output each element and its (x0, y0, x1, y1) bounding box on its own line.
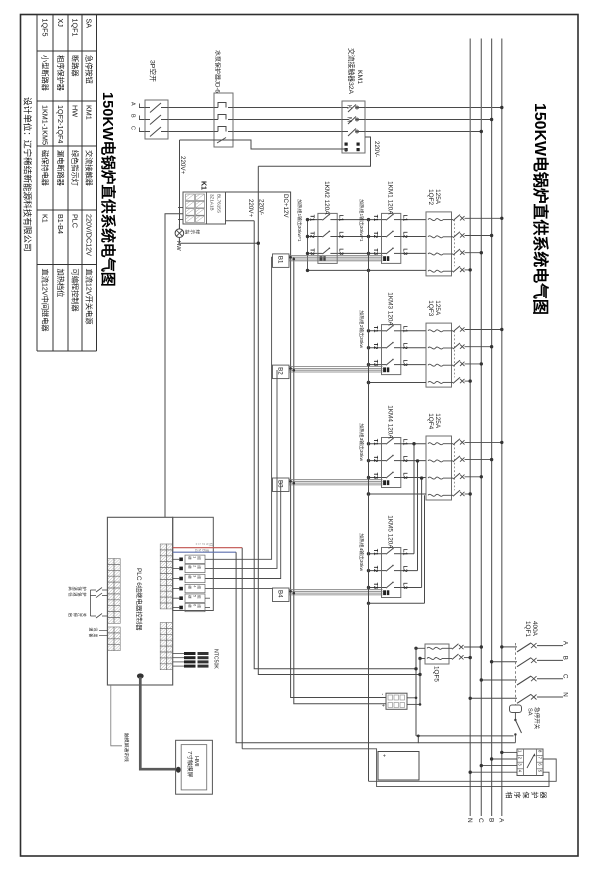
wire 220V+ rail to K1 HW (179, 140, 181, 229)
wire 220V+ rail vertical (254, 221, 416, 669)
breaker 1QF1 400A poles (502, 646, 517, 648)
svg-text:1QF2-1QF4: 1QF2-1QF4 (56, 105, 65, 143)
svg-text:通: 通 (89, 628, 94, 632)
svg-text:B: B (130, 114, 136, 118)
svg-text:M: M (345, 117, 351, 122)
wire 1QF3 pole 3 to bus (465, 363, 482, 365)
svg-text:C: C (477, 818, 484, 823)
coil wire bundle row 3 (289, 479, 383, 481)
wire 1QF3 pole 2 to bus (465, 346, 492, 348)
svg-text:B1-B4: B1-B4 (56, 214, 65, 234)
wire phase B (139, 119, 492, 121)
contactor 1KM4 pole T1 (382, 443, 387, 445)
svg-text:相: 相 (504, 792, 513, 799)
wire blue loop to SA return (236, 552, 418, 743)
svg-text:示: 示 (190, 230, 195, 235)
wire row 2 T/L lines (369, 330, 427, 332)
svg-text:N: N (561, 692, 568, 696)
svg-text:小型断路器: 小型断路器 (40, 55, 49, 91)
svg-text:1QF1: 1QF1 (524, 621, 531, 637)
svg-text:7寸触摸屏: 7寸触摸屏 (186, 751, 194, 778)
svg-text:B: B (487, 818, 494, 822)
contactor 1KM1 coil terminals (383, 256, 386, 261)
svg-text:B2: B2 (277, 367, 284, 375)
svg-text:漏电断路器: 漏电断路器 (56, 150, 65, 186)
svg-text:L3: L3 (401, 473, 407, 480)
wire coil return row 1 (308, 269, 427, 271)
junction bundle row 1 rails (289, 256, 292, 259)
contactor 1KM5 pole T1 (382, 553, 387, 555)
T-side junction dots 1KM1 (367, 218, 370, 221)
breaker 1QF3 pole 4 (428, 381, 443, 383)
wire SA return segment (418, 742, 515, 744)
PLC right terminal strip lower (160, 623, 166, 629)
svg-text:B: B (561, 656, 568, 660)
wire DC12V+ red (173, 547, 243, 549)
svg-text:直流12V开关电源: 直流12V开关电源 (85, 269, 94, 325)
breaker 1QF5 box (425, 644, 449, 664)
contactor 1KM2 pole T2 (318, 236, 323, 238)
wire B2 riser (205, 370, 277, 568)
phase sequence relay XJ 相序保护器 (517, 749, 543, 776)
wire row 4 T/L lines (369, 553, 415, 555)
contactor 1KM1 box (382, 213, 401, 263)
T-side junction dots 1KM5 (367, 552, 370, 555)
svg-text:L2: L2 (401, 343, 407, 350)
svg-text:1KM5 120A: 1KM5 120A (387, 515, 394, 549)
svg-text:断路器: 断路器 (70, 55, 79, 77)
junction 1QF3 pole 1 bus (500, 328, 503, 331)
svg-text:L2: L2 (401, 566, 407, 573)
contactor 1KM1 pole T1 (382, 219, 387, 221)
svg-text:A: A (130, 102, 136, 106)
aux power loop box (378, 752, 419, 781)
svg-text:3: 3 (192, 575, 196, 577)
svg-text:L1: L1 (337, 215, 343, 222)
contactor 1KM1 pole T2 (382, 236, 387, 238)
svg-text:150KW电锅炉直供系统电气图: 150KW电锅炉直供系统电气图 (531, 103, 550, 315)
junction 1QF3 pole 4 bus (469, 379, 472, 382)
emergency stop SA (510, 705, 522, 713)
svg-text:T1: T1 (372, 326, 378, 333)
svg-text:150KW电锅炉直供系统电气图: 150KW电锅炉直供系统电气图 (99, 92, 117, 287)
svg-text:继: 继 (188, 595, 193, 599)
wire AC rail N vertical (419, 659, 421, 705)
wire K1 left pin to PLC input long vertical (165, 214, 183, 544)
svg-text:6: 6 (192, 604, 196, 606)
svg-text:T1: T1 (308, 215, 314, 222)
svg-text:220V-: 220V- (373, 141, 380, 157)
svg-text:直流12V中间继电器: 直流12V中间继电器 (40, 269, 49, 332)
wire KM1 coil stub (345, 149, 347, 152)
1QF1 trip linkage dashed (514, 643, 516, 705)
breaker 1QF2 pole 3 (428, 253, 443, 255)
junction 1QF3 pole 2 bus (490, 345, 493, 348)
wire XJ pin 5 loop to relay K feed (242, 749, 549, 787)
svg-text:K1: K1 (199, 181, 206, 190)
wire red rail down (241, 548, 243, 749)
relay channel 3 (179, 577, 183, 581)
svg-text:+: + (380, 704, 386, 707)
junction 1QF4 pole 3 bus (480, 475, 483, 478)
svg-text:KM1: KM1 (85, 105, 94, 120)
svg-text:HMI: HMI (193, 756, 199, 767)
svg-text:组: 组 (197, 604, 202, 608)
junction phase B to bus B (490, 118, 493, 121)
svg-text:L1: L1 (401, 326, 407, 333)
coil wire bundle row 4 (289, 589, 383, 591)
indicator lamp HW 绿色指示灯 (178, 224, 180, 229)
junction HW wire on 220V- rail (257, 242, 260, 245)
contactor KM1 box (342, 101, 365, 153)
svg-text:T2: T2 (372, 456, 378, 463)
svg-text:关: 关 (81, 613, 88, 617)
svg-text:1QF1: 1QF1 (70, 19, 79, 37)
contactor 1KM4 box (382, 438, 401, 488)
junction 1QF4 pole 4 bus (469, 492, 472, 495)
junction bundle row 3 rails (289, 480, 292, 483)
relay board box (173, 517, 214, 610)
coil wire bundle row 2 (289, 366, 383, 368)
svg-text:G: G (194, 549, 198, 552)
svg-text:T3: T3 (372, 473, 378, 480)
svg-text:N: N (466, 818, 473, 823)
svg-text:急停按钮: 急停按钮 (85, 55, 94, 84)
svg-text:A: A (497, 818, 504, 823)
wire 1QF2 pole 1 to bus (465, 217, 502, 219)
wire 1QF3 pole 1 to bus (465, 329, 502, 331)
svg-text:加热组1输出30kw*1: 加热组1输出30kw*1 (296, 199, 303, 242)
relay K1 left pin stubs (178, 207, 183, 209)
wire DC12V second rail (294, 257, 386, 704)
svg-text:B4: B4 (277, 590, 284, 598)
svg-text:1QF3: 1QF3 (427, 300, 434, 316)
HMI comm cable thick (137, 673, 144, 678)
svg-text:HW: HW (70, 105, 79, 117)
svg-text:1KM4 120A: 1KM4 120A (387, 405, 394, 439)
wire XJ pin 4 to bus N (470, 771, 517, 773)
wire 1QF5 pole2 to bus N (464, 657, 470, 659)
junction bundle row 4 rails (289, 590, 292, 593)
contactor KM1 aux terminals (345, 143, 348, 146)
svg-text:组: 组 (197, 595, 202, 599)
contactor 1KM2 pole T1 (318, 219, 323, 221)
svg-text:继: 继 (188, 575, 193, 579)
contactor 1KM2 box (318, 213, 337, 263)
wire 1QF4 pole 1 to bus (465, 441, 502, 443)
svg-text:绿: 绿 (195, 230, 201, 235)
wire 1QF3 pole 4 to bus (465, 380, 471, 382)
wire DC+12V rail (206, 192, 386, 698)
svg-text:L3: L3 (401, 583, 407, 590)
svg-text:组: 组 (197, 585, 202, 589)
svg-text:护: 护 (530, 792, 539, 799)
wire 1KM5 L2 riser (417, 461, 419, 571)
junction 1QF3 pole 3 bus (480, 362, 483, 365)
svg-text:4: 4 (192, 585, 196, 587)
svg-text:2: 2 (201, 543, 205, 545)
svg-text:B1: B1 (277, 256, 284, 264)
svg-text:用: 用 (93, 634, 98, 638)
svg-text:1: 1 (198, 543, 202, 545)
svg-text:HW: HW (175, 241, 181, 251)
terminal box B4 (273, 588, 290, 602)
svg-text:K1: K1 (40, 214, 49, 223)
svg-text:加热组1输出30kw*1: 加热组1输出30kw*1 (358, 199, 365, 242)
svg-text:220V/DC12V: 220V/DC12V (85, 214, 94, 256)
junction 1QF4 pole 2 bus (490, 458, 493, 461)
svg-text:1KM1-1KM5: 1KM1-1KM5 (40, 105, 49, 145)
svg-text:急停开关: 急停开关 (533, 707, 541, 730)
svg-text:SA: SA (85, 19, 94, 29)
contactor 1KM1 pole T3 (382, 252, 387, 254)
svg-text:设计单位：辽宁稀结新能源科技有限公司: 设计单位：辽宁稀结新能源科技有限公司 (22, 97, 33, 252)
wire SA feed from 1QF5 (416, 735, 514, 737)
contactor 1KM4 pole T3 (382, 477, 387, 479)
svg-text:T3: T3 (308, 248, 314, 255)
svg-text:SA: SA (526, 708, 532, 716)
svg-text:继: 继 (188, 565, 193, 569)
svg-text:继: 继 (188, 604, 193, 608)
svg-text:1KM3 120A: 1KM3 120A (387, 292, 394, 326)
svg-text:组: 组 (197, 575, 202, 579)
svg-text:+: + (381, 754, 387, 757)
wire B4 direct (205, 588, 273, 590)
wires PLC left inputs (89, 590, 91, 616)
contactor 1KM3 pole T3 (382, 364, 387, 366)
svg-text:T2: T2 (372, 343, 378, 350)
wire 1QF5 pole1 feed (416, 647, 425, 649)
wire 1QF5 pole1 to bus C (464, 646, 481, 648)
wire KM1 220V- drop (258, 137, 370, 166)
svg-text:L3: L3 (401, 360, 407, 367)
svg-text:T1: T1 (372, 215, 378, 222)
wire 1KM5 L1 riser (413, 444, 415, 554)
wire coil return row 2 (369, 382, 427, 384)
svg-text:组: 组 (197, 556, 202, 560)
svg-text:指: 指 (183, 230, 190, 235)
contactor 1KM4 pole T2 (382, 460, 387, 462)
wire AC rail L vertical (415, 648, 417, 736)
svg-text:1KM2 120A: 1KM2 120A (323, 181, 330, 215)
contactor 1KM2 pole T3 (318, 252, 323, 254)
svg-text:组: 组 (197, 565, 202, 569)
wire K1 output to 220V+ rail (226, 220, 255, 222)
contactor 1KM2 coil terminals (320, 256, 323, 261)
svg-text:B3: B3 (277, 480, 284, 488)
wire 1KM2 T-side vertical tie (307, 220, 309, 271)
wire 1QF2 pole 4 to bus (465, 269, 471, 271)
wire phase C (139, 131, 481, 133)
breaker 1QF4 pole 1 (428, 443, 443, 445)
junction bundle row 2 rails (289, 367, 292, 370)
breaker 1QF4 box (426, 436, 452, 500)
svg-text:2: 2 (192, 565, 196, 567)
breaker 1QF4 pole 4 (428, 494, 443, 496)
relay channel 2 (179, 567, 183, 571)
svg-text:T2: T2 (372, 232, 378, 239)
svg-text:1QF5: 1QF5 (433, 666, 440, 682)
svg-text:器: 器 (539, 792, 547, 799)
svg-text:+: + (194, 543, 198, 545)
svg-text:护: 护 (81, 592, 88, 596)
svg-text:继: 继 (188, 585, 193, 589)
svg-text:加热组3输出30kw: 加热组3输出30kw (358, 423, 365, 461)
breaker 1QF3 pole 1 (428, 330, 443, 332)
breaker 1QF2 pole 1 (428, 219, 443, 221)
breaker 1QF4 pole 2 (428, 460, 443, 462)
wire phase A (139, 107, 502, 109)
relay channel 4 (179, 587, 183, 591)
contactor 1KM3 pole T1 (382, 330, 387, 332)
terminal box B2 (273, 365, 290, 379)
svg-text:T2: T2 (308, 232, 314, 239)
svg-text:加热组2输出30kw: 加热组2输出30kw (358, 310, 365, 348)
svg-text:1QF2: 1QF2 (427, 189, 434, 205)
svg-text:水泵保护器JD-6: 水泵保护器JD-6 (213, 50, 221, 93)
wire XJ pin 6 loop (369, 759, 557, 781)
wire 220V- rail vertical (258, 166, 420, 674)
bus A vertical (501, 39, 503, 817)
svg-text:125A: 125A (434, 189, 441, 205)
relay channel 6 (179, 606, 183, 610)
PLC left terminal strip (108, 559, 114, 565)
comm line label leader (111, 685, 122, 746)
svg-text:L3: L3 (401, 248, 407, 255)
wire coil return row 4 (369, 602, 425, 604)
svg-text:T1: T1 (372, 549, 378, 556)
wires XJ pins 1-3 to buses (502, 751, 517, 753)
svg-text:220V-: 220V- (258, 199, 265, 215)
wire 1KM5 L3 riser (421, 478, 423, 587)
svg-text:BL7615S: BL7615S (216, 194, 221, 213)
PLC left terminal strip lower (108, 627, 114, 633)
svg-text:3Z1A1B: 3Z1A1B (209, 194, 214, 211)
svg-text:L2: L2 (337, 232, 343, 239)
svg-text:T3: T3 (372, 583, 378, 590)
svg-text:L1: L1 (401, 549, 407, 556)
svg-text:C: C (130, 126, 136, 130)
svg-text:125A: 125A (434, 300, 441, 316)
breaker 1QF3 pole 2 (428, 347, 443, 349)
junction 1QF2 pole 1 bus (500, 217, 503, 220)
PLC right terminal strip upper (160, 544, 166, 550)
breaker 1QF3 box (426, 323, 452, 387)
wire 1QF2 pole 3 to bus (465, 252, 482, 254)
contactor 1KM4 coil terminals (383, 480, 386, 485)
svg-text:T2: T2 (372, 566, 378, 573)
svg-text:L1: L1 (401, 215, 407, 222)
svg-text:L2: L2 (401, 232, 407, 239)
svg-text:XJ: XJ (56, 19, 65, 28)
breaker 1QF3 pole 3 (428, 364, 443, 366)
svg-text:DC+12V: DC+12V (282, 194, 289, 218)
bus B vertical (491, 39, 493, 817)
svg-text:L3: L3 (337, 248, 343, 255)
wire neutral tie vertical (368, 220, 370, 782)
terminal box B3 (273, 478, 290, 492)
junction 1QF2 pole 4 bus (469, 268, 472, 271)
junction 1QF2 pole 2 bus (490, 234, 493, 237)
svg-text:交流接触器32A: 交流接触器32A (347, 48, 356, 95)
svg-text:绿色指示灯: 绿色指示灯 (70, 150, 79, 186)
wire B3 riser (205, 481, 281, 578)
svg-text:5: 5 (192, 595, 196, 597)
T-side junction dots 1KM3 (367, 329, 370, 332)
wire B1 riser (205, 257, 273, 559)
relay K1 block (183, 192, 226, 224)
breaker QS 3P空开 (145, 100, 168, 139)
svg-text:1QF4: 1QF4 (427, 413, 434, 429)
contactor 1KM3 coil terminals (383, 367, 386, 372)
bus C vertical (480, 39, 482, 817)
svg-text:护: 护 (81, 587, 88, 591)
legend table grid (36, 15, 38, 352)
contactor 1KM3 box (382, 325, 401, 375)
bus N vertical (469, 39, 471, 817)
T-side junction dots 1KM4 (367, 442, 370, 445)
svg-text:讯: 讯 (93, 628, 98, 632)
svg-text:L2: L2 (401, 456, 407, 463)
contactor 1KM5 pole T3 (382, 587, 387, 589)
svg-text:L1: L1 (401, 439, 407, 446)
terminal box B1 (273, 254, 290, 268)
wire 1QF4 pole 2 to bus (465, 459, 492, 461)
svg-text:PLC 6组继电器控制器: PLC 6组继电器控制器 (135, 568, 144, 631)
svg-text:保: 保 (522, 792, 531, 799)
svg-text:1: 1 (192, 556, 196, 558)
svg-text:触摸屏通讯线: 触摸屏通讯线 (123, 733, 130, 762)
wire 1QF4 pole 4 to bus (465, 493, 471, 495)
svg-text:相序保护器: 相序保护器 (56, 55, 65, 91)
breaker 1QF4 pole 3 (428, 477, 443, 479)
wire HW lamp to 220V- rail (179, 238, 257, 244)
relay channel 5 (179, 596, 183, 600)
junction phase A to bus A (500, 106, 503, 109)
pump protector JD-6 水泵保护器 (214, 93, 233, 147)
junction phase C to bus C (480, 130, 483, 133)
svg-text:NTC50K: NTC50K (213, 649, 219, 669)
svg-text:加热组4输出30kw: 加热组4输出30kw (358, 533, 365, 571)
junction 1QF4 pole 1 bus (500, 441, 503, 444)
svg-text:交流接触器: 交流接触器 (85, 150, 94, 186)
HMI touch panel box (176, 740, 213, 794)
wire 1QF2 pole 2 to bus (465, 235, 492, 237)
svg-text:继: 继 (188, 556, 193, 560)
svg-text:T1: T1 (372, 439, 378, 446)
wire GND blue (173, 551, 236, 553)
breaker 1QF2 box (426, 212, 452, 276)
contactor 1KM3 pole T2 (382, 347, 387, 349)
wire row 3 T/L lines (369, 443, 427, 445)
wire 1QF5 pole2 feed (420, 658, 425, 660)
svg-text:C: C (561, 674, 568, 679)
svg-text:400A: 400A (531, 621, 538, 637)
svg-text:1KM1 120A: 1KM1 120A (387, 181, 394, 215)
svg-text:可编程控制器: 可编程控制器 (70, 269, 79, 312)
breaker 1QF2 pole 2 (428, 236, 443, 238)
contactor 1KM5 box (382, 548, 401, 598)
svg-text:磁保持电器: 磁保持电器 (40, 150, 49, 186)
supply output pins (407, 697, 416, 699)
svg-text:1QF5: 1QF5 (40, 19, 49, 37)
wire coil return row 3 (369, 493, 427, 495)
contactor 1KM5 pole T2 (382, 570, 387, 572)
svg-text:加热档位: 加热档位 (56, 269, 65, 298)
svg-text:T3: T3 (372, 360, 378, 367)
svg-text:220V+: 220V+ (247, 199, 254, 217)
12V switching power supply box (386, 693, 407, 709)
